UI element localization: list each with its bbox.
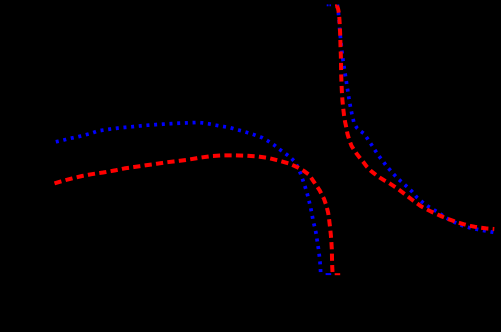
blue dotted curve: left branch (56, 123, 321, 274)
red dashed curve: clipped run along top axis (335, 4, 337, 6)
red dashed curve: left branch (55, 155, 333, 272)
red dashed curve: clipped run along bottom axis (335, 273, 341, 275)
blue dotted curve: clipped run along top axis (327, 4, 331, 6)
red dashed curve: right branch (337, 6, 495, 229)
blue dotted curve: clipped run along bottom axis (326, 273, 332, 275)
blue dotted curve: right branch (337, 5, 494, 233)
